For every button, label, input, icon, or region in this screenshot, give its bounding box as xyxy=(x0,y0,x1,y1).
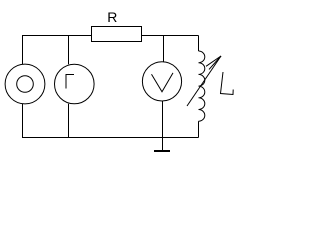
wire generator branch lower xyxy=(68,104,70,138)
wire left branch lower xyxy=(22,104,24,138)
wire right branch upper xyxy=(198,36,200,52)
svg-text:R: R xyxy=(107,9,117,25)
voltmeter V xyxy=(142,62,181,101)
ground xyxy=(162,138,164,151)
inductor L coil xyxy=(199,51,205,121)
wire top-right horizontal xyxy=(141,35,199,37)
inductor adjustment arrow xyxy=(187,56,221,106)
resistor R xyxy=(92,27,142,42)
instrument O (circle-in-circle symbol) xyxy=(5,64,45,104)
wire bottom horizontal xyxy=(22,137,199,139)
wire right branch lower xyxy=(198,121,200,137)
label L xyxy=(221,72,234,95)
wire generator branch upper xyxy=(68,36,70,65)
wire top-left horizontal xyxy=(22,35,92,37)
wire voltmeter branch upper xyxy=(163,36,165,62)
wire voltmeter branch lower xyxy=(162,101,164,138)
generator Г xyxy=(55,64,95,104)
wire left branch upper xyxy=(22,36,24,65)
